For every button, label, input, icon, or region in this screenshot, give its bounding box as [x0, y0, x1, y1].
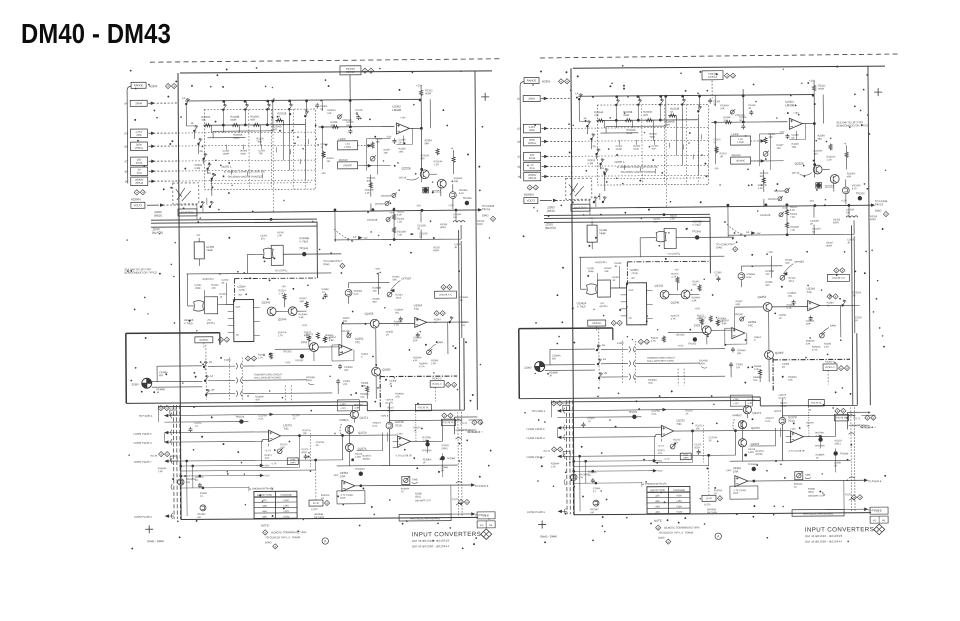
right schematic panel (duplicate frame) [517, 66, 891, 546]
scan streak left [150, 59, 500, 62]
right panel mid band (sits higher) [523, 213, 860, 393]
svg-text:C2301A: C2301A [346, 71, 355, 74]
svg-text:SEMICONDUCTOR TYPES: SEMICONDUCTOR TYPES [836, 123, 869, 127]
svg-text:SEMICONDUCTOR TYPES: SEMICONDUCTOR TYPES [124, 270, 157, 274]
component box R2306A top (left) [340, 66, 361, 75]
left schematic panel [124, 71, 498, 551]
scan streak right [540, 54, 900, 58]
title [21, 18, 171, 50]
note see parts list (right panel) [836, 120, 869, 127]
scan speckle [126, 63, 889, 551]
svg-text:C2301A: C2301A [708, 76, 717, 79]
left panel mid band [130, 230, 467, 410]
note see parts list (left panel) [124, 267, 157, 274]
component box T2301B top (right) [702, 71, 723, 80]
